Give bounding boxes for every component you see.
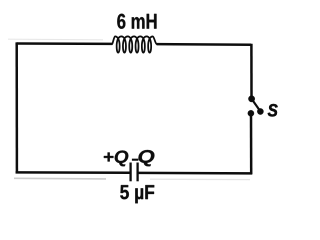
switch S: lower terminal dot <box>248 110 254 116</box>
scan artifact faint streak below bottom-right wire <box>150 178 250 180</box>
wire: bottom side, left segment to capacitor <box>16 171 130 174</box>
capacitor C1: right plate <box>136 163 138 182</box>
inductor L1 coil (6 loops) <box>112 36 157 52</box>
switch label S <box>268 104 278 117</box>
wire: right side, upper segment (corner to switch) <box>250 44 253 99</box>
wire: top side, left segment to inductor <box>17 42 113 45</box>
inductor value label 6 mH <box>117 14 156 29</box>
charge label minus-Q : minus dash <box>132 159 139 161</box>
wire: right side, lower segment (switch to corner) <box>250 113 253 174</box>
scan artifact streak below bottom-left wire <box>14 177 106 180</box>
wire: top side, right segment from inductor to top-right corner <box>157 43 252 46</box>
capacitor value label 5 µF <box>120 185 154 203</box>
wire: left side vertical <box>15 42 18 173</box>
switch S: blade arm <box>252 99 261 112</box>
scan artifact faint streak above top-left wire <box>8 38 103 41</box>
switch S: blade end dot <box>257 108 263 114</box>
wire: bottom side, right segment from capacitor to bottom-right corner <box>138 172 253 175</box>
charge label +Q <box>104 150 128 166</box>
switch S: upper terminal dot <box>248 96 254 102</box>
charge label minus-Q : Q glyph <box>139 150 155 166</box>
capacitor C1: left plate <box>129 163 131 182</box>
